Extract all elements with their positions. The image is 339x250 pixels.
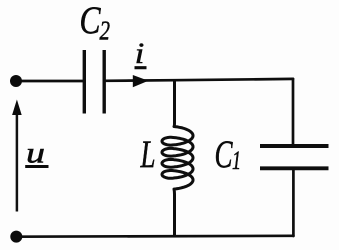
svg-text:C: C — [215, 133, 234, 176]
wire bottom — [16, 234, 293, 238]
current arrowhead — [133, 75, 149, 87]
capacitor C2 — [84, 50, 104, 114]
wire top-left segment — [16, 80, 84, 83]
node top-left — [10, 75, 22, 87]
node bottom-left — [10, 231, 22, 243]
wire top-right segment — [105, 79, 294, 81]
capacitor C1 — [260, 146, 329, 168]
svg-text:2: 2 — [100, 16, 111, 46]
svg-text:u: u — [26, 136, 45, 169]
voltage arrow u — [12, 100, 22, 212]
underline of u — [25, 165, 48, 168]
wire right branch upper — [292, 79, 295, 145]
svg-text:C: C — [80, 0, 102, 42]
underline of i — [135, 66, 147, 69]
svg-text:L: L — [140, 133, 156, 176]
wire right branch lower — [292, 169, 295, 236]
svg-text:i: i — [135, 37, 145, 70]
svg-text:1: 1 — [232, 146, 241, 175]
inductor L coil — [162, 80, 193, 237]
